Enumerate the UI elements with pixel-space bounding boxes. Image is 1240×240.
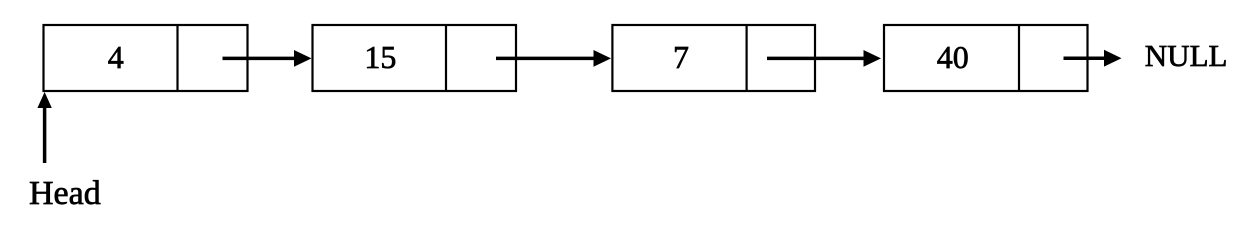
- node 4 box: [884, 25, 1088, 91]
- node 2 value 15: [364, 39, 396, 75]
- arrow node1 to node2: [223, 50, 312, 67]
- label NULL: [1145, 38, 1228, 73]
- svg-text:4: 4: [108, 39, 124, 75]
- node 3 value 7: [673, 39, 689, 75]
- node 2 box: [313, 25, 517, 91]
- svg-text:7: 7: [673, 39, 689, 75]
- svg-text:NULL: NULL: [1145, 38, 1228, 73]
- node 1 box: [44, 25, 248, 91]
- node 1 value 4: [108, 39, 124, 75]
- node 1 divider: [176, 25, 178, 91]
- svg-text:15: 15: [364, 39, 396, 75]
- svg-text:Head: Head: [29, 175, 101, 212]
- node 3 box: [612, 25, 815, 91]
- node 3 divider: [745, 25, 747, 91]
- svg-text:40: 40: [937, 39, 969, 75]
- label Head: [29, 175, 101, 212]
- node 4 value 40: [937, 39, 969, 75]
- arrow node4 to NULL: [1064, 50, 1122, 67]
- node 2 divider: [445, 25, 447, 91]
- arrow node2 to node3: [496, 50, 611, 67]
- arrow node3 to node4: [767, 50, 881, 67]
- head arrow: [37, 92, 51, 163]
- node 4 divider: [1018, 25, 1020, 91]
